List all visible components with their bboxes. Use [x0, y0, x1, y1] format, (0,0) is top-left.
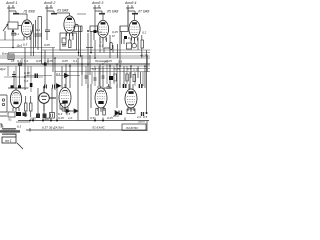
svg-text:щ1: щ1 — [45, 117, 50, 121]
svg-text:0,1: 0,1 — [73, 59, 78, 63]
svg-text:Л4 6П3С: Л4 6П3С — [125, 126, 139, 130]
svg-text:Анод 4: Анод 4 — [124, 1, 136, 5]
svg-text:6,3Т 3Б ДАЛЬН.: 6,3Т 3Б ДАЛЬН. — [42, 126, 65, 130]
svg-text:0,1: 0,1 — [17, 59, 22, 63]
svg-text:0,1: 0,1 — [36, 28, 41, 32]
svg-text:2,0: 2,0 — [136, 115, 142, 119]
svg-text:0,5: 0,5 — [90, 116, 95, 120]
svg-text:0,05: 0,05 — [36, 59, 42, 63]
svg-text:Анод 3: Анод 3 — [91, 1, 103, 5]
svg-text:2шт: 2шт — [137, 120, 145, 124]
svg-text:0,5: 0,5 — [127, 67, 132, 71]
svg-text:0,15: 0,15 — [133, 68, 139, 72]
svg-text:Л5 6Ж8: Л5 6Ж8 — [106, 10, 119, 14]
svg-text:0,25: 0,25 — [58, 116, 64, 120]
svg-text:0,1: 0,1 — [98, 30, 103, 34]
svg-text:5,0: 5,0 — [24, 79, 29, 83]
svg-text:6,3: 6,3 — [23, 43, 28, 47]
svg-text:0,2: 0,2 — [142, 31, 147, 35]
svg-text:0,05: 0,05 — [62, 59, 68, 63]
svg-text:0,05: 0,05 — [44, 43, 50, 47]
svg-text:20,0: 20,0 — [112, 114, 119, 118]
svg-text:Блок: Блок — [2, 52, 9, 56]
svg-text:Др1: Др1 — [16, 44, 23, 48]
svg-text:≈6,3В: ≈6,3В — [140, 54, 148, 58]
svg-text:1,0: 1,0 — [104, 60, 109, 64]
svg-text:0,25: 0,25 — [30, 117, 36, 121]
svg-text:1,0: 1,0 — [68, 116, 73, 120]
svg-text:0,1: 0,1 — [92, 67, 97, 71]
svg-text:Л3 6Ж8: Л3 6Ж8 — [56, 9, 69, 13]
svg-text:20: 20 — [24, 86, 29, 90]
svg-text:Анод 1: Анод 1 — [5, 1, 17, 5]
svg-text:0,15: 0,15 — [24, 71, 30, 75]
svg-text:0,5: 0,5 — [118, 60, 123, 64]
svg-text:0,1: 0,1 — [99, 44, 104, 48]
svg-text:Л7 6Ж8: Л7 6Ж8 — [137, 10, 150, 14]
svg-text:Л1: Л1 — [7, 118, 12, 122]
svg-text:0,1: 0,1 — [15, 32, 20, 36]
svg-text:Др2: Др2 — [0, 67, 6, 71]
svg-text:15: 15 — [11, 59, 15, 63]
svg-text:Л1 6Ж8: Л1 6Ж8 — [23, 10, 36, 14]
svg-text:0,1: 0,1 — [128, 36, 133, 40]
svg-text:15: 15 — [24, 114, 28, 118]
svg-text:пл 1: пл 1 — [5, 139, 12, 143]
svg-text:Анод 2: Анод 2 — [43, 1, 55, 5]
svg-text:0,1: 0,1 — [16, 112, 21, 116]
svg-text:0,1: 0,1 — [56, 72, 61, 76]
svg-text:0,05: 0,05 — [47, 59, 53, 63]
svg-text:0,5: 0,5 — [143, 115, 148, 119]
svg-text:5,0: 5,0 — [24, 59, 29, 63]
svg-text:6,3: 6,3 — [17, 125, 22, 129]
svg-text:Тр: Тр — [0, 125, 4, 129]
svg-text:Л2 6Ж8С: Л2 6Ж8С — [91, 126, 106, 130]
svg-text:0,25: 0,25 — [114, 67, 120, 71]
